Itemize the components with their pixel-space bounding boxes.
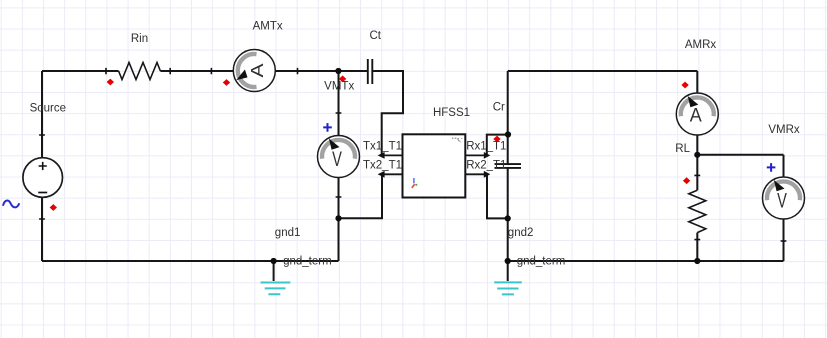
svg-text:Ct: Ct — [369, 30, 381, 42]
svg-text:VMTx: VMTx — [324, 80, 354, 92]
svg-text:VMRx: VMRx — [768, 124, 800, 136]
svg-text:Tx1_T1: Tx1_T1 — [363, 140, 402, 152]
svg-text:Rx1_T1: Rx1_T1 — [466, 140, 506, 152]
svg-text:A: A — [249, 63, 268, 77]
svg-text:RL: RL — [675, 143, 690, 155]
svg-text:gnd1: gnd1 — [275, 227, 301, 239]
svg-text:HFSS1: HFSS1 — [433, 107, 470, 119]
svg-text:Source: Source — [30, 103, 66, 115]
svg-text:Rx2_T1: Rx2_T1 — [466, 159, 506, 171]
svg-text:gnd_term: gnd_term — [283, 256, 332, 268]
svg-text:gnd2: gnd2 — [508, 227, 534, 239]
svg-text:AMRx: AMRx — [685, 39, 717, 51]
svg-text:V: V — [332, 146, 342, 171]
svg-text:V: V — [777, 188, 787, 213]
svg-text:Rin: Rin — [131, 33, 148, 45]
svg-text:AMTx: AMTx — [253, 21, 283, 33]
svg-text:A: A — [690, 104, 702, 126]
svg-text:Cr: Cr — [493, 102, 505, 114]
svg-text:gnd_term: gnd_term — [517, 256, 566, 268]
svg-text:Tx2_T1: Tx2_T1 — [363, 159, 402, 171]
